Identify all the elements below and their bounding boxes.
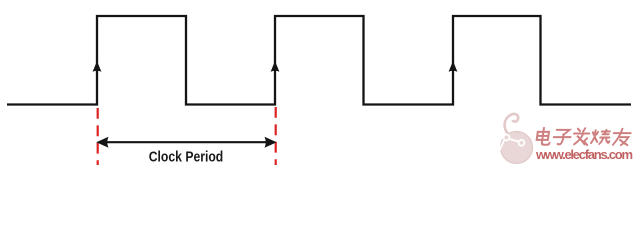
rising-edge arrow 1 — [93, 61, 102, 72]
watermark logo circle — [499, 114, 533, 164]
dimension arrowhead left — [96, 137, 108, 148]
dimension arrowhead right — [265, 137, 277, 148]
clock waveform — [7, 16, 631, 105]
red dashed marker right — [275, 107, 277, 165]
watermark chinese text (drawn glyphs) — [536, 128, 631, 145]
svg-text:Clock Period: Clock Period — [149, 149, 224, 166]
rising-edge arrow 3 — [449, 61, 458, 72]
red dashed marker left — [97, 108, 99, 165]
clock period dimension arrow — [105, 141, 268, 143]
rising-edge arrow 2 — [271, 61, 280, 72]
svg-text:www.elecfans.com: www.elecfans.com — [535, 147, 633, 162]
